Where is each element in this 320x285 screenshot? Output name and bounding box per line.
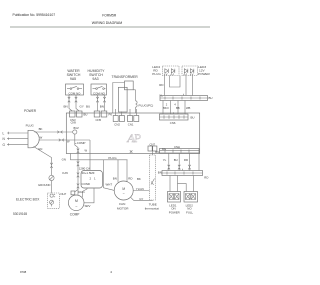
svg-text:COMP: COMP xyxy=(77,141,86,145)
connector CN6 xyxy=(160,114,189,120)
LED module box top-left xyxy=(163,66,180,76)
LED2 label xyxy=(186,203,194,214)
svg-text:BKO: BKO xyxy=(163,106,169,110)
water switch wire NO xyxy=(76,95,79,111)
svg-text:RD: RD xyxy=(204,175,208,179)
LED3 label xyxy=(198,65,210,76)
svg-text:RD: RD xyxy=(184,158,188,162)
svg-text:BU: BU xyxy=(209,96,213,100)
svg-text:COM NO: COM NO xyxy=(69,91,82,95)
svg-text:COND: COND xyxy=(82,182,91,186)
svg-text:CN9: CN9 xyxy=(71,121,77,125)
svg-text:BK: BK xyxy=(39,127,43,131)
svg-text:GN: GN xyxy=(38,147,42,151)
svg-text:CN2: CN2 xyxy=(114,122,120,126)
connector CN1 (transformer pri) xyxy=(128,116,133,122)
svg-text:ELECTRIC BOX: ELECTRIC BOX xyxy=(16,197,40,201)
svg-text:BB: BB xyxy=(176,106,180,110)
svg-text:RD: RD xyxy=(159,83,163,87)
svg-text:YL: YL xyxy=(163,158,167,162)
wire cap 2 to compressor R xyxy=(82,188,87,197)
svg-text:BN: BN xyxy=(100,104,104,108)
svg-text:SRV: SRV xyxy=(85,204,91,208)
svg-text:BU: BU xyxy=(174,158,178,162)
wires CN4 to LED plug xyxy=(168,153,170,171)
wire W drop to capacitor xyxy=(89,140,91,170)
compressor relay on board xyxy=(75,134,78,153)
wire cap 1 to compressor S xyxy=(84,188,94,203)
svg-text:9708: 9708 xyxy=(20,270,27,274)
wire fan to tube thermostat xyxy=(133,190,149,192)
connector CN4 xyxy=(160,149,200,154)
svg-text:BUZ: BUZ xyxy=(74,126,80,130)
svg-text:thermostat: thermostat xyxy=(145,207,159,211)
svg-text:1280 CA: 1280 CA xyxy=(79,166,90,170)
wire board to compressor (C) xyxy=(77,154,79,195)
power plug P1 xyxy=(28,130,39,148)
LED module box top-right xyxy=(182,66,198,76)
svg-text:OLP: OLP xyxy=(60,192,66,196)
transformer T1 xyxy=(113,83,125,114)
control board outline xyxy=(66,113,199,154)
water switch S1 xyxy=(66,84,84,95)
wire BK from plug to board xyxy=(35,131,73,133)
svg-text:BU: BU xyxy=(86,104,90,108)
connector CN7 (tube thermostat) xyxy=(148,146,152,151)
svg-text:FORM5R: FORM5R xyxy=(102,14,117,18)
svg-text:GROUND: GROUND xyxy=(38,183,50,187)
svg-text:MOTOR: MOTOR xyxy=(117,207,129,211)
humidity switch wire COM xyxy=(97,95,99,111)
svg-text:PLUG: PLUG xyxy=(108,156,117,160)
svg-text:KA5: KA5 xyxy=(62,171,68,175)
wire screw to electric box xyxy=(51,181,53,194)
transformer wires to CN2 CN1 xyxy=(115,109,117,116)
humidity switch wire NO xyxy=(104,95,106,111)
svg-text:YLGN: YLGN xyxy=(136,187,144,191)
electric box xyxy=(48,193,60,208)
wire WHT plug to fan xyxy=(104,160,115,191)
svg-text:BN: BN xyxy=(155,150,159,154)
junction mark xyxy=(130,150,133,152)
water switch wire COM xyxy=(69,95,72,111)
svg-text:CN7: CN7 xyxy=(150,142,156,146)
svg-text:BN: BN xyxy=(158,170,162,174)
svg-text:9A3: 9A3 xyxy=(92,77,98,81)
svg-text:WHT: WHT xyxy=(106,182,113,186)
LED1 label xyxy=(169,203,180,214)
svg-text:HUMIDITY: HUMIDITY xyxy=(88,69,106,73)
svg-text:BN: BN xyxy=(113,176,117,180)
svg-text:P6: P6 xyxy=(109,113,113,117)
svg-text:M: M xyxy=(75,199,78,203)
connector CN2 (transformer sec) xyxy=(113,116,118,122)
wire LED4 left pin xyxy=(164,76,166,96)
svg-text:BN: BN xyxy=(64,104,68,108)
svg-text:9A5: 9A5 xyxy=(70,77,76,81)
tube thermostat xyxy=(150,155,156,200)
svg-text:POWER: POWER xyxy=(198,72,210,76)
plug prong G xyxy=(7,143,28,145)
wires LED plug to CN6 xyxy=(162,101,164,115)
svg-text:40+1.5MF: 40+1.5MF xyxy=(82,171,95,175)
svg-text:PLUG(PC): PLUG(PC) xyxy=(139,104,154,108)
svg-text:M: M xyxy=(122,187,125,191)
wire LED3 pins xyxy=(185,76,187,96)
svg-text:PLUG: PLUG xyxy=(26,124,35,128)
svg-text:BK: BK xyxy=(137,177,141,181)
run capacitor xyxy=(81,171,103,189)
plug prong L xyxy=(7,132,28,134)
svg-text:~: ~ xyxy=(123,192,125,196)
humidity switch S2 xyxy=(91,84,107,95)
LED module box bottom-right xyxy=(184,192,198,203)
svg-text:Publication No. 5995416107: Publication No. 5995416107 xyxy=(13,13,56,17)
svg-text:FULL: FULL xyxy=(186,210,193,214)
overload protector OLP xyxy=(75,190,78,192)
wire GN to ground xyxy=(34,147,52,176)
wire tube thermostat bottom xyxy=(131,198,153,201)
svg-text:POWER: POWER xyxy=(24,109,37,113)
svg-text:L: L xyxy=(3,131,5,135)
svg-text:FAN: FAN xyxy=(119,202,125,206)
svg-text:CN1: CN1 xyxy=(128,122,134,126)
svg-text:53019165: 53019165 xyxy=(13,212,27,216)
svg-text:BU: BU xyxy=(84,113,88,117)
wire BN plug to fan xyxy=(117,160,119,182)
wire color labels BN GY BU BN xyxy=(64,104,104,108)
svg-text:BU: BU xyxy=(191,115,195,119)
svg-text:CN6: CN6 xyxy=(170,121,176,125)
connector CN3 (water switch) xyxy=(70,111,76,117)
svg-text:COM NO: COM NO xyxy=(93,91,106,95)
lower LED plug bar xyxy=(162,171,203,176)
wire CN7 to tube thermostat xyxy=(151,151,153,155)
svg-text:POWER: POWER xyxy=(169,210,180,214)
svg-text:WB: WB xyxy=(186,106,191,110)
svg-text:W: W xyxy=(40,136,43,140)
water switch label xyxy=(67,69,81,81)
LED plug bar xyxy=(160,96,208,101)
svg-text:COMP: COMP xyxy=(70,212,80,216)
svg-text:PLUG: PLUG xyxy=(152,72,161,76)
wires bar to LED modules xyxy=(169,176,171,192)
svg-text:WATER: WATER xyxy=(67,69,80,73)
svg-text:CN5: CN5 xyxy=(96,118,102,122)
LED module box bottom-left xyxy=(168,192,181,203)
ground screw xyxy=(49,175,54,180)
svg-text:GY: GY xyxy=(139,197,143,201)
humidity switch label xyxy=(88,69,106,81)
fan motor xyxy=(114,181,133,200)
svg-text:GN: GN xyxy=(62,158,66,162)
wire LED series link xyxy=(170,76,181,88)
wire RD plug to fan xyxy=(126,160,128,182)
LED4 label xyxy=(152,65,161,76)
svg-text:CN4: CN4 xyxy=(174,145,180,149)
svg-text:AP: AP xyxy=(126,131,141,145)
svg-text:GY: GY xyxy=(80,104,84,108)
wire W from plug into board xyxy=(39,139,91,141)
compressor motor xyxy=(68,195,84,211)
svg-text:TRANSFORMER: TRANSFORMER xyxy=(112,75,139,79)
svg-text:WIRING DIAGRAM: WIRING DIAGRAM xyxy=(92,21,122,25)
header rule xyxy=(10,26,210,28)
plug prong N xyxy=(7,138,28,140)
svg-text:RD: RD xyxy=(128,176,132,180)
connector CN5 (humidity switch) xyxy=(94,111,100,117)
